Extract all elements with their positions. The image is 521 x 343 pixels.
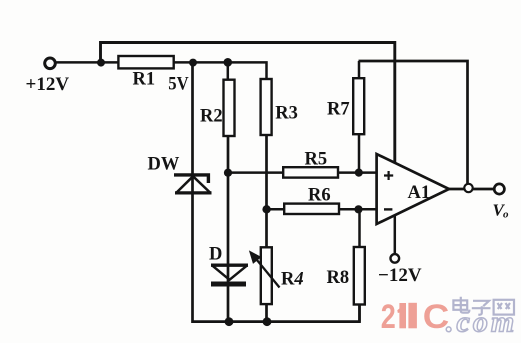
svg-text:D: D [209,244,222,264]
svg-text:R8: R8 [327,268,350,288]
svg-text:R1: R1 [133,70,156,90]
svg-text:5V: 5V [168,74,189,94]
svg-text:DW: DW [148,155,180,175]
svg-text:R7: R7 [327,100,350,120]
svg-text:R3: R3 [275,103,298,123]
svg-text:R5: R5 [305,149,328,169]
svg-text:R4: R4 [281,269,304,289]
svg-text:−12V: −12V [378,265,422,286]
svg-text:2: 2 [381,298,396,336]
svg-text:.com: .com [446,306,517,339]
svg-text:+12V: +12V [26,74,70,95]
svg-text:A1: A1 [408,183,431,203]
svg-text:R6: R6 [308,186,331,206]
svg-text:R2: R2 [200,107,223,127]
svg-text:o: o [503,209,509,221]
